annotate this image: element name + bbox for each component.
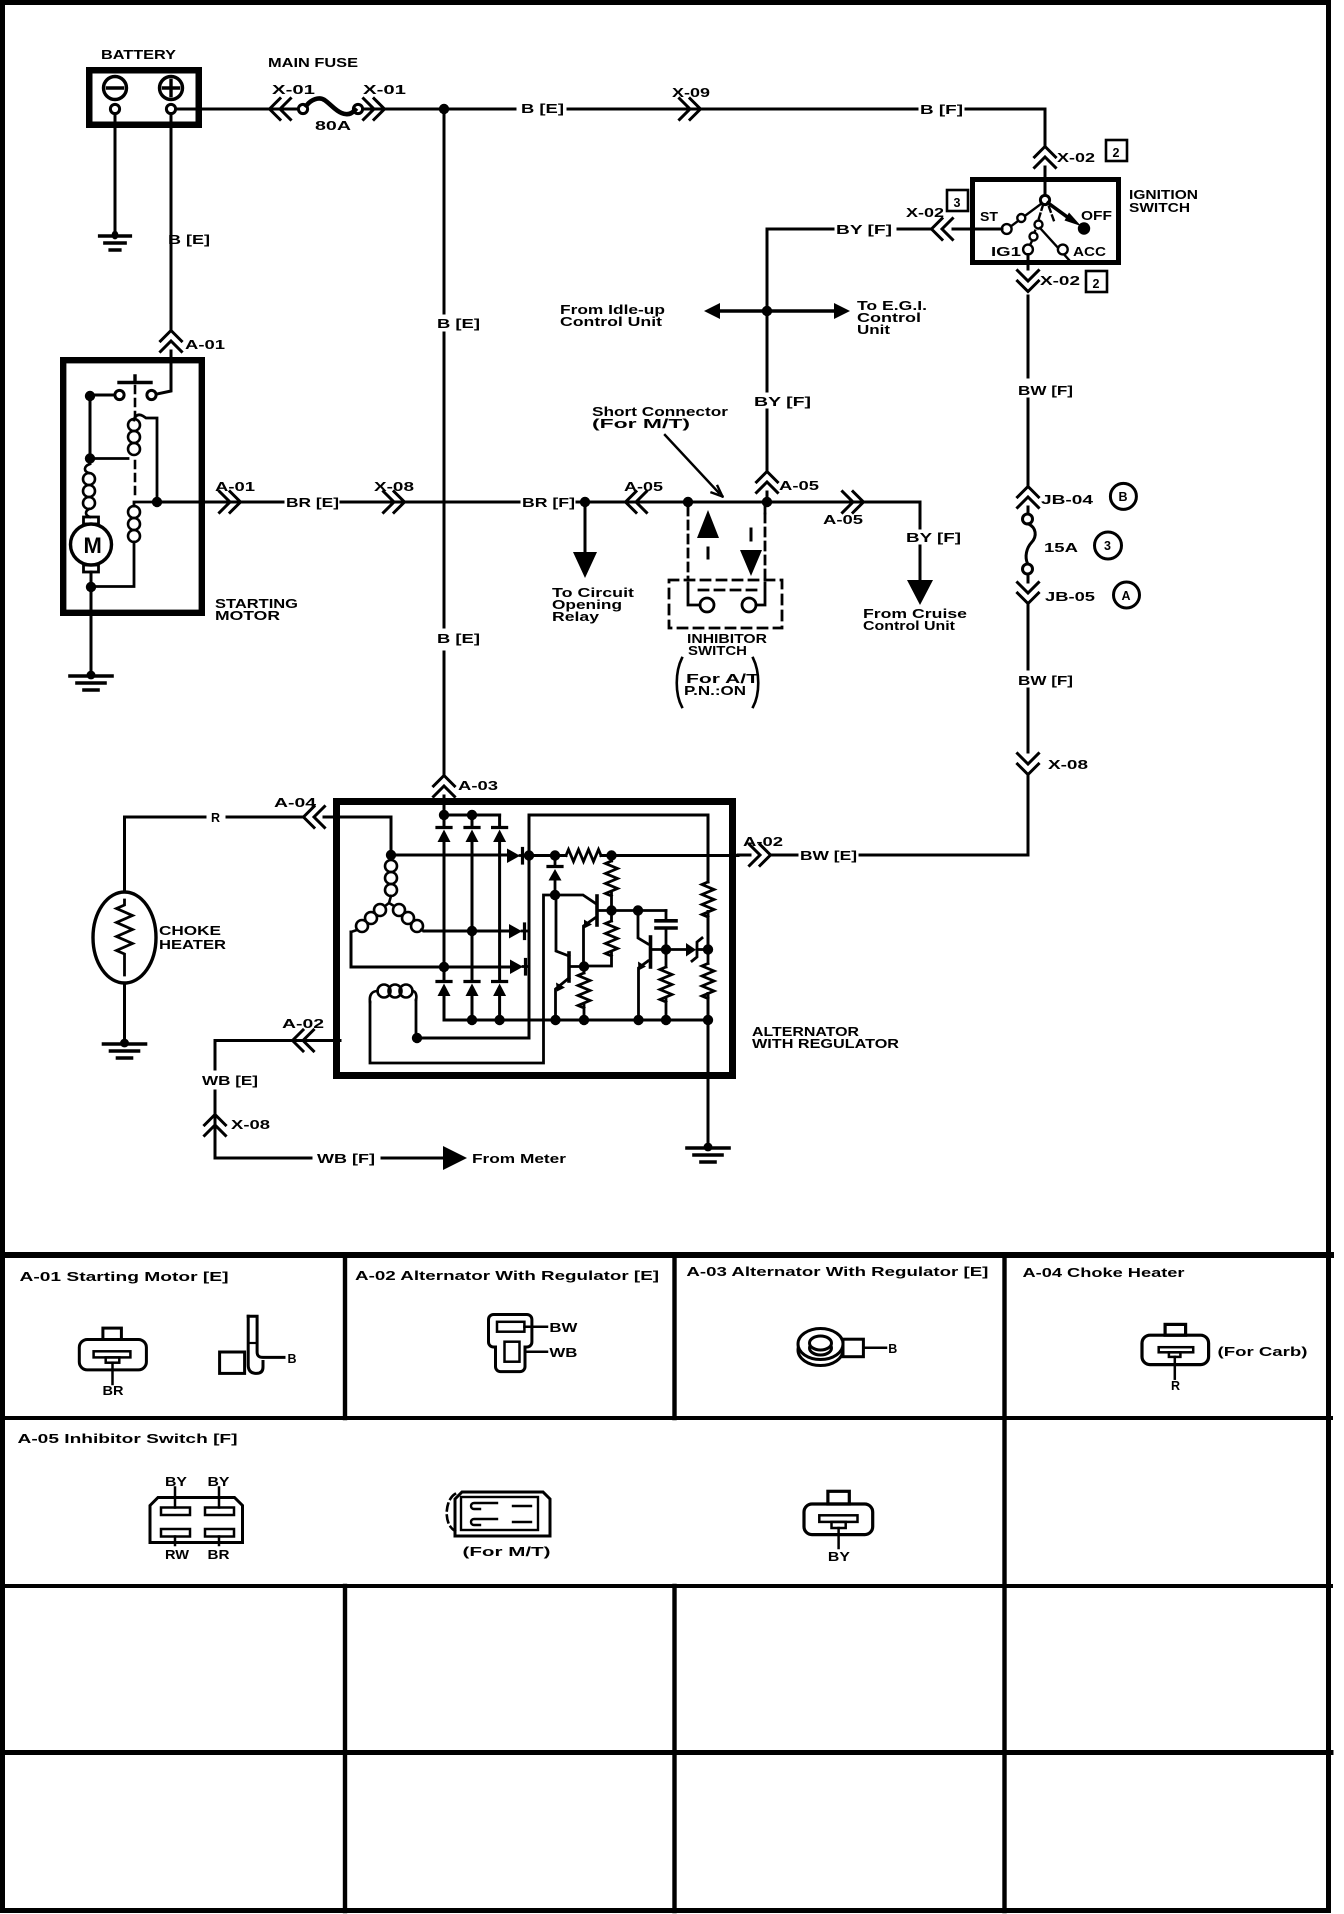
connector A-03 chevrons up: [434, 776, 455, 797]
connector A-05 4pin: [150, 1488, 243, 1546]
svg-text:A-01 Starting Motor [E]: A-01 Starting Motor [E]: [20, 1270, 229, 1284]
svg-text:BR: BR: [208, 1548, 230, 1562]
svg-text:X-08: X-08: [231, 1118, 270, 1132]
svg-text:BR [E]: BR [E]: [286, 496, 339, 510]
wire relay left contact to field: [90, 395, 115, 458]
svg-text:X-01: X-01: [363, 83, 406, 97]
connector A-05 BY plug: [804, 1491, 873, 1548]
wire to X-09: [568, 108, 917, 111]
connector X-01 chevrons right: [364, 99, 385, 120]
wire battery plus to fuse: [176, 108, 298, 111]
connector X-08 chevrons down: [1018, 754, 1039, 775]
transistor Q1: [555, 895, 612, 966]
svg-text:IG1: IG1: [991, 245, 1021, 259]
resistor R1: [566, 850, 601, 862]
wire choke heater ground: [123, 983, 126, 1040]
stator coil A: [385, 860, 397, 896]
connector X-09 chevrons: [680, 99, 701, 120]
svg-text:2: 2: [1093, 277, 1100, 291]
rectifier top rail: [444, 814, 500, 817]
svg-text:A-03 Alternator With Regulator: A-03 Alternator With Regulator [E]: [686, 1265, 988, 1279]
svg-text:WB [F]: WB [F]: [317, 1152, 375, 1166]
svg-text:X-02: X-02: [1040, 274, 1080, 288]
svg-text:MAIN FUSE: MAIN FUSE: [268, 56, 358, 70]
connector A-01 chevrons right: [220, 492, 241, 513]
trio diode 3: [510, 960, 529, 975]
svg-text:SWITCH: SWITCH: [1129, 201, 1190, 215]
svg-text:Relay: Relay: [552, 610, 599, 624]
wire BW [E] to alternator: [772, 854, 797, 857]
wire R terminal: [340, 817, 391, 850]
svg-text:B [E]: B [E]: [437, 632, 480, 646]
ignition switch ACC contact: [1035, 207, 1071, 261]
battery minus terminal: [104, 77, 127, 114]
node trio output: [524, 850, 534, 860]
wire A-03 into alternator: [443, 796, 446, 815]
wire BY [F] to cruise: [919, 502, 922, 580]
wire down to A-02 line: [860, 775, 1028, 855]
svg-text:BW [E]: BW [E]: [800, 849, 857, 863]
svg-text:A-05: A-05: [779, 479, 819, 493]
wire battery minus to ground: [114, 114, 117, 232]
svg-text:(For M/T): (For M/T): [463, 1545, 551, 1559]
wire IG1 down out of switch: [1027, 255, 1030, 270]
node R1 left: [550, 850, 560, 860]
resistor R2: [606, 856, 618, 911]
svg-text:R: R: [211, 811, 220, 825]
battery BOX: [89, 70, 199, 125]
short connector dashed leads: [688, 507, 765, 580]
connector X-02 chevrons down: [1018, 271, 1039, 292]
svg-text:A-02: A-02: [743, 835, 783, 849]
svg-text:SWITCH: SWITCH: [688, 644, 747, 658]
svg-text:R: R: [1171, 1379, 1180, 1393]
svg-text:A-02 Alternator With Regulator: A-02 Alternator With Regulator [E]: [355, 1269, 659, 1283]
svg-text:BATTERY: BATTERY: [101, 48, 177, 62]
svg-text:B [E]: B [E]: [437, 317, 480, 331]
svg-text:Control Unit: Control Unit: [560, 315, 663, 329]
wire field right to frame: [415, 1000, 418, 1038]
wire field loop left: [370, 895, 555, 1063]
wire into fuse: [1027, 507, 1030, 514]
svg-text:WB: WB: [549, 1346, 577, 1360]
ignition switch lever arm to OFF: [1048, 203, 1068, 218]
wire alternator to A-02 chevrons: [738, 854, 750, 857]
plug direction arrow down: [750, 529, 753, 540]
node zener top: [703, 944, 713, 954]
inhibitor switch contact bar: [699, 589, 757, 592]
resistor R4b: [660, 950, 672, 1021]
table grid: [0, 1252, 1331, 1258]
svg-text:MOTOR: MOTOR: [215, 609, 280, 623]
svg-text:JB-05: JB-05: [1045, 590, 1095, 604]
wire choke heater to R: [125, 817, 303, 892]
svg-text:B [E]: B [E]: [168, 233, 210, 247]
node BR output junction: [152, 497, 162, 507]
connector A-02 chevrons left lower: [293, 1030, 314, 1051]
svg-text:BW: BW: [549, 1321, 577, 1335]
node phase C to leg2: [467, 926, 477, 936]
solenoid pull-in coil: [128, 419, 140, 455]
stator coil B: [351, 903, 389, 932]
svg-text:B: B: [288, 1352, 297, 1366]
node stator phase A junction: [386, 850, 396, 860]
wire B [F] to ignition switch: [966, 109, 1045, 145]
transistor Q3: [638, 911, 686, 1021]
wire A-05 into junction: [766, 492, 769, 502]
connector A-01 plug: [79, 1328, 146, 1384]
svg-text:CHOKE: CHOKE: [159, 924, 221, 938]
diode D7 field flyback: [548, 860, 562, 890]
rectifier leg 1: [444, 815, 708, 1020]
wire B [E] vertical: [443, 109, 446, 774]
svg-text:ACC: ACC: [1073, 245, 1106, 259]
svg-text:RW: RW: [165, 1548, 189, 1562]
svg-text:80A: 80A: [315, 119, 351, 133]
ground choke heater: [104, 1039, 146, 1058]
fuse 15A: [1023, 514, 1036, 574]
regulator frame right / divider: [707, 815, 710, 1075]
svg-text:B [F]: B [F]: [920, 103, 963, 117]
svg-text:B [E]: B [E]: [521, 102, 564, 116]
wire base line right: [612, 909, 667, 912]
ignition switch box: [973, 180, 1119, 263]
stator coil C: [389, 903, 424, 932]
node field node N1: [550, 890, 560, 900]
diode bottom 1: [437, 982, 451, 997]
ref circle 3: [1095, 532, 1122, 559]
ref box 2 lower: [1086, 271, 1107, 292]
svg-text:X-02: X-02: [906, 206, 944, 220]
svg-text:Control Unit: Control Unit: [863, 619, 956, 633]
starting motor box: [63, 360, 202, 613]
solenoid hold-in coil: [128, 506, 140, 542]
terminal A-01 blade: [220, 1316, 284, 1373]
connector JB-05 chevrons down: [1018, 583, 1039, 604]
svg-text:BW [F]: BW [F]: [1018, 384, 1073, 398]
EGI double arrow line: [719, 309, 835, 312]
svg-text:JB-04: JB-04: [1041, 493, 1093, 507]
svg-text:(For Carb): (For Carb): [1218, 1345, 1308, 1359]
resistor R5a: [702, 882, 714, 917]
ref box 3: [947, 190, 968, 211]
arrow from cruise control unit: [907, 580, 933, 605]
wire battery plus down to starting motor: [157, 114, 171, 394]
svg-text:X-08: X-08: [1048, 758, 1088, 772]
label For A/T P.N.:ON: [677, 658, 759, 707]
node Q1 base: [606, 905, 616, 915]
svg-text:BY [F]: BY [F]: [754, 395, 811, 409]
svg-text:B: B: [1119, 490, 1128, 504]
connector X-08 chevrons up left: [205, 1115, 226, 1136]
node short connector left: [683, 497, 693, 507]
terminal A-03 ring: [798, 1329, 886, 1366]
connector A-05 chevrons right: [843, 492, 864, 513]
wire phase A output: [391, 854, 507, 857]
wire BY [F] to EGI junction: [767, 229, 833, 306]
svg-text:3: 3: [954, 196, 961, 210]
svg-text:15A: 15A: [1044, 541, 1078, 555]
capacitor C1: [656, 911, 676, 950]
ignition switch IG1 contact: [1023, 205, 1043, 254]
svg-text:A-05: A-05: [823, 513, 863, 527]
node top rail legs: [439, 810, 449, 820]
wire pull-in coil top to output: [134, 415, 157, 502]
arrow From Meter: [443, 1146, 467, 1170]
diode top 1: [437, 828, 451, 843]
svg-text:WB [E]: WB [E]: [202, 1074, 258, 1088]
node bottom rail joints: [467, 1015, 477, 1025]
node main bus junction: [439, 104, 449, 114]
wire B+ to R1: [529, 854, 566, 857]
wire BR [F] to A-05 line: [577, 501, 920, 504]
transistor Q2: [556, 895, 585, 1020]
svg-text:BR: BR: [103, 1384, 124, 1398]
wire pull-in coil bottom left: [95, 457, 128, 460]
svg-text:A-05: A-05: [624, 480, 663, 494]
wire phase B output: [351, 932, 510, 967]
wire BR [E]: [157, 501, 519, 504]
resistor R4a: [578, 967, 590, 1021]
main fuse 80A: [298, 99, 362, 115]
node R1 right: [606, 850, 616, 860]
wire BW [F] lower: [1027, 604, 1030, 752]
svg-text:A: A: [1122, 589, 1131, 603]
regulator frame left / field feed: [417, 815, 529, 1038]
ref box 2 upper: [1106, 140, 1127, 161]
svg-text:(For M/T): (For M/T): [592, 417, 690, 431]
svg-text:A-01: A-01: [185, 338, 225, 352]
wire phase C output: [424, 930, 509, 933]
ref circle B: [1110, 483, 1136, 509]
node field right: [412, 1033, 422, 1043]
node circuit opening relay branch: [580, 497, 590, 507]
ignition switch common contact: [1040, 195, 1049, 204]
trio diode 1: [507, 849, 529, 864]
connector X-08 chevrons right: [384, 492, 405, 513]
svg-text:ST: ST: [980, 210, 998, 224]
svg-text:A-02: A-02: [282, 1017, 324, 1031]
inhibitor switch terminals: [688, 583, 765, 612]
connector A-02 chevrons right: [750, 845, 771, 866]
connector A-01 chevrons: [161, 331, 182, 352]
wire ST to BY [F]: [898, 228, 1002, 231]
wire WB [F]: [382, 1157, 443, 1160]
svg-text:Unit: Unit: [857, 323, 891, 337]
svg-text:B: B: [888, 1342, 897, 1356]
motor field coil: [83, 473, 95, 509]
ignition switch ST contact: [1002, 204, 1042, 234]
svg-text:P.N.:ON: P.N.:ON: [684, 684, 746, 698]
svg-text:2: 2: [1113, 146, 1120, 160]
ground battery: [99, 231, 131, 250]
node ground rail right: [703, 1015, 713, 1025]
diode top 3: [493, 828, 507, 843]
connector A-05 chevrons left: [626, 492, 647, 513]
resistor R3: [584, 911, 618, 967]
node short connector right: [762, 497, 772, 507]
rectifier leg 3: [498, 815, 501, 1020]
relay contacts: [115, 390, 156, 399]
node Q3 base cap: [661, 944, 671, 954]
svg-text:A-05 Inhibitor Switch [F]: A-05 Inhibitor Switch [F]: [18, 1432, 238, 1446]
connector JB-04 chevrons up: [1018, 487, 1039, 508]
wire BY [F] down to A-05: [766, 311, 769, 470]
svg-text:X-02: X-02: [1057, 151, 1095, 165]
diode bottom 3: [493, 982, 507, 997]
wire into ignition switch: [1044, 167, 1047, 196]
svg-text:3: 3: [1104, 539, 1111, 553]
svg-text:HEATER: HEATER: [159, 938, 226, 952]
svg-text:A-04: A-04: [274, 796, 316, 810]
wire fuse to JB-05: [1027, 574, 1030, 582]
wire A-04 into alternator: [324, 816, 340, 819]
svg-text:BY: BY: [208, 1475, 231, 1489]
alternator box: [337, 802, 733, 1076]
rectifier leg 2: [471, 815, 474, 1020]
diode top 2: [465, 828, 479, 843]
ground starting motor: [70, 671, 112, 690]
connector A-02 plug: [489, 1315, 548, 1372]
svg-text:BR [F]: BR [F]: [522, 496, 575, 510]
connector A-05 M/T plug: [447, 1492, 550, 1536]
wire hold-in coil to motor bottom: [91, 502, 157, 587]
stator star center: [389, 896, 391, 903]
regulator frame top: [529, 814, 708, 817]
arrow to circuit opening relay: [584, 502, 587, 552]
svg-text:BW [F]: BW [F]: [1018, 674, 1073, 688]
node EGI junction: [762, 306, 772, 316]
svg-text:A-03: A-03: [458, 779, 498, 793]
svg-text:M: M: [84, 533, 102, 558]
svg-text:BY [F]: BY [F]: [906, 531, 961, 545]
wire BW [F] upper: [1027, 296, 1030, 485]
wire B+ output A-02: [601, 854, 738, 857]
inhibitor switch dashed box: [669, 580, 782, 628]
zener diode ZD: [686, 938, 708, 961]
node cap branch: [633, 905, 643, 915]
svg-text:A-01: A-01: [215, 480, 255, 494]
plug direction arrow up: [697, 510, 719, 538]
svg-text:A-04 Choke Heater: A-04 Choke Heater: [1023, 1266, 1185, 1280]
node Q2 base: [579, 961, 589, 971]
leader arrow short connector: [665, 435, 719, 493]
diode bottom 2: [465, 982, 479, 997]
svg-text:IGNITION: IGNITION: [1129, 188, 1198, 202]
relay plunger bar: [119, 376, 151, 383]
wire fuse to junction: [363, 108, 515, 111]
wire alternator ground: [707, 1075, 710, 1144]
wire motor bottom: [90, 572, 93, 672]
node solenoid left junction: [85, 391, 95, 401]
connector X-02 chevrons up: [1035, 147, 1056, 168]
svg-text:BY [F]: BY [F]: [836, 223, 892, 237]
battery plus terminal: [160, 77, 183, 114]
svg-text:OFF: OFF: [1081, 209, 1112, 223]
relay plunger dashed link: [134, 386, 137, 499]
motor M: [71, 517, 112, 572]
connector A-04 chevrons left: [304, 807, 325, 828]
node phase B to leg1: [439, 962, 449, 972]
svg-text:WITH REGULATOR: WITH REGULATOR: [752, 1037, 899, 1051]
ignition switch OFF contact: [1078, 222, 1090, 234]
connector X-02 chevrons left: [932, 219, 953, 240]
resistor R5b: [702, 950, 714, 999]
trio diode 2: [509, 924, 529, 939]
rotor field coil: [370, 985, 417, 1003]
connector X-01 chevrons left: [270, 99, 291, 120]
svg-text:From Meter: From Meter: [472, 1152, 566, 1166]
svg-text:BY: BY: [828, 1550, 851, 1564]
node ground rail joints: [550, 1015, 560, 1025]
svg-text:BY: BY: [165, 1475, 188, 1489]
connector A-04 plug: [1142, 1324, 1209, 1378]
wire WB [E] out of alternator: [215, 1041, 340, 1159]
ground alternator: [687, 1143, 729, 1162]
svg-text:X-01: X-01: [272, 83, 315, 97]
node motor bottom junction: [86, 582, 96, 592]
ref circle A: [1114, 582, 1140, 608]
choke heater: [93, 892, 156, 983]
connector A-05 chevrons up: [757, 472, 778, 493]
